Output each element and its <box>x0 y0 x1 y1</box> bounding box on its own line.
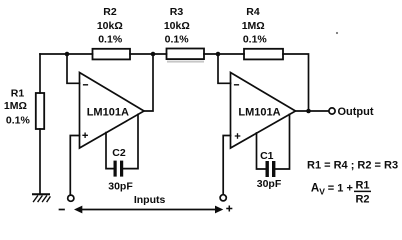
svg-text:0.1%: 0.1% <box>6 114 31 126</box>
U1 non-inverting input marker <box>83 133 87 137</box>
op-amp U2 triangle <box>231 73 296 149</box>
svg-text:R1 = R4 ; R2 = R3: R1 = R4 ; R2 = R3 <box>307 159 398 171</box>
minus polarity label at left input <box>60 209 65 211</box>
scan smudge under R3 <box>167 61 204 63</box>
capacitor C2 left lead <box>106 133 113 169</box>
svg-text:10kΩ: 10kΩ <box>97 20 123 32</box>
formula fraction bar <box>354 190 371 192</box>
svg-text:10kΩ: 10kΩ <box>164 20 190 32</box>
svg-text:A: A <box>311 183 319 195</box>
wire: node A1 inverting input branch <box>67 54 80 83</box>
input terminal circle right <box>220 195 226 201</box>
svg-text:LM101A: LM101A <box>87 107 129 119</box>
wire: R1 top lead to feedback rail <box>39 54 41 93</box>
inputs arrowhead right <box>215 206 223 214</box>
U2 inverting input marker <box>235 84 239 86</box>
svg-text:R3: R3 <box>170 6 184 18</box>
svg-text:= 1 +: = 1 + <box>328 183 353 195</box>
svg-text:V: V <box>319 186 325 196</box>
ground bar <box>33 193 49 195</box>
svg-text:LM101A: LM101A <box>238 107 280 119</box>
svg-text:R1: R1 <box>11 87 25 99</box>
svg-text:1MΩ: 1MΩ <box>242 20 265 32</box>
junction node: rail / A2 inverting <box>216 52 221 57</box>
scan speck <box>336 32 338 34</box>
svg-text:Output: Output <box>337 106 373 118</box>
resistor R4 (box) <box>244 49 283 60</box>
wire: A2 output to output terminal <box>296 110 329 112</box>
capacitor C1 right lead <box>275 114 289 169</box>
capacitor C2 plates <box>114 161 117 177</box>
wire: A1 output rising to rail between R2 and R3 <box>144 54 153 111</box>
wire: right input terminal up to A2 non-inverting input <box>223 136 230 195</box>
capacitor C2 right lead <box>123 115 138 169</box>
svg-text:C1: C1 <box>260 150 274 162</box>
svg-text:R2: R2 <box>103 6 117 18</box>
plus polarity label at right input <box>227 206 232 211</box>
svg-text:0.1%: 0.1% <box>165 34 190 46</box>
svg-text:30pF: 30pF <box>108 181 133 193</box>
wire: node A2 inverting input branch <box>218 54 231 83</box>
capacitor C1 plates <box>266 161 269 177</box>
wire: left input terminal up to A1 non-inverting input <box>70 136 79 195</box>
capacitor C1 left lead <box>257 133 266 169</box>
wire: R1 bottom lead to ground <box>39 129 41 194</box>
junction node: rail / A1 output <box>151 52 156 57</box>
svg-text:C2: C2 <box>112 147 126 159</box>
svg-text:R1: R1 <box>355 180 369 192</box>
U2 non-inverting input marker <box>235 134 239 138</box>
svg-text:R4: R4 <box>246 6 260 18</box>
wire: R3 right to R4 left <box>204 53 244 55</box>
inputs arrowhead left <box>74 206 82 214</box>
svg-text:Inputs: Inputs <box>134 194 166 206</box>
op-amp U1 triangle <box>80 73 145 149</box>
svg-text:1MΩ: 1MΩ <box>4 100 27 112</box>
input terminal circle left <box>68 195 74 201</box>
svg-text:R2: R2 <box>355 194 369 206</box>
wire: R4 right down to output node <box>283 54 309 111</box>
output terminal circle <box>329 108 335 114</box>
resistor R3 (box) <box>167 49 205 60</box>
svg-text:0.1%: 0.1% <box>243 34 268 46</box>
U1 inverting input marker <box>84 84 88 86</box>
wire: R2 right to R3 left <box>130 53 167 55</box>
junction node: rail / A1 inverting <box>65 52 70 57</box>
wire: top rail from R1 branch to R2 left <box>40 53 93 55</box>
ground hatching <box>34 196 51 202</box>
resistor R2 (box) <box>93 49 131 60</box>
junction node: output / R4 <box>306 109 311 114</box>
svg-text:30pF: 30pF <box>257 178 282 190</box>
svg-text:0.1%: 0.1% <box>98 34 123 46</box>
inputs arrow shaft <box>81 209 216 211</box>
resistor R1 (box) <box>36 93 44 129</box>
